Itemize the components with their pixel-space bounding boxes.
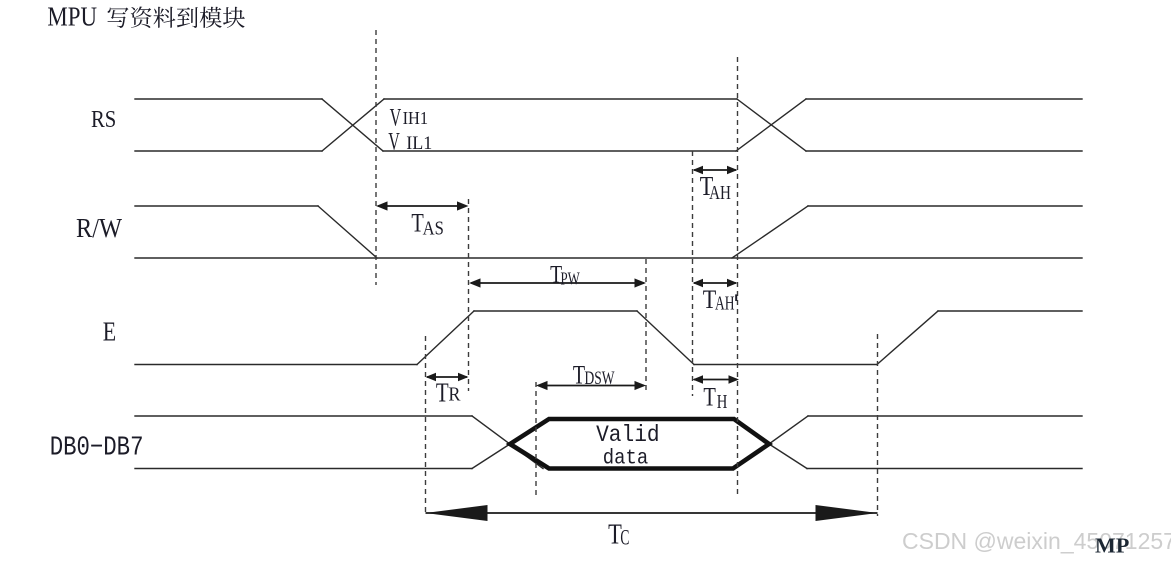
svg-text:DSW: DSW — [585, 368, 615, 389]
arrow TH — [694, 379, 737, 381]
RS low rail right — [806, 150, 1082, 152]
svg-text:data: data — [603, 447, 648, 470]
svg-text:CSDN @weixin_45071257: CSDN @weixin_45071257 — [902, 528, 1171, 554]
E low rail mid — [694, 364, 877, 366]
svg-text:H: H — [717, 391, 728, 413]
RW rising edge — [732, 206, 808, 258]
svg-text:AS: AS — [423, 218, 444, 240]
DB crossover falling thin — [472, 416, 543, 469]
E low rail left — [135, 364, 417, 366]
DB high rail left — [135, 415, 472, 417]
arrow TR — [427, 376, 467, 378]
DB right thin rising — [769, 416, 808, 444]
svg-text:IH1: IH1 — [403, 108, 429, 128]
svg-text:T: T — [436, 377, 449, 408]
svg-text:R/W: R/W — [76, 213, 122, 243]
svg-text:PW: PW — [561, 268, 581, 288]
svg-text:RS: RS — [91, 106, 116, 133]
DB low rail left — [135, 468, 472, 470]
svg-text:AH: AH — [709, 182, 731, 204]
RW high rail left — [135, 205, 318, 207]
svg-text:T: T — [703, 383, 716, 412]
dashed guide D4 — [535, 382, 537, 496]
DB high rail right — [808, 415, 1082, 417]
RS high rail left — [135, 98, 322, 100]
arrow TAH2 — [694, 282, 736, 284]
E rising edge 2 — [877, 311, 938, 365]
svg-text:MPU: MPU — [47, 0, 97, 31]
arrow TC — [426, 512, 878, 514]
RW falling edge — [318, 206, 377, 258]
RS right crossover rising — [736, 99, 806, 151]
DB low rail right — [807, 468, 1082, 470]
DB right thin falling — [769, 444, 807, 469]
dashed guide D3 — [425, 336, 427, 515]
RS right crossover falling — [737, 99, 806, 151]
dashed guide D5 — [645, 259, 647, 390]
svg-text:T: T — [573, 360, 585, 390]
RS high rail right — [806, 98, 1082, 100]
svg-text:MP: MP — [1095, 534, 1129, 558]
valid data hexagon — [510, 419, 769, 469]
E high rail — [474, 310, 637, 312]
svg-text:V: V — [388, 127, 400, 156]
DB crossover rising thin — [472, 444, 510, 469]
title CJK 写资料到模块 — [108, 6, 245, 27]
svg-text:R: R — [448, 384, 461, 406]
arrow TDSW — [538, 385, 644, 387]
dashed guide D1 — [375, 30, 377, 285]
arrow TAH — [694, 169, 736, 171]
svg-text:IL1: IL1 — [406, 133, 432, 154]
RS crossover rising — [322, 99, 384, 151]
dashed guide D6 — [692, 151, 694, 396]
svg-text:AH: AH — [715, 293, 735, 314]
dashed guide D2 — [468, 199, 470, 391]
E rising edge 1 — [417, 311, 474, 365]
label TAH2 tick — [735, 294, 737, 301]
RS low rail mid — [383, 150, 736, 152]
arrow TPW — [471, 282, 644, 284]
svg-text:DB0−DB7: DB0−DB7 — [50, 434, 144, 464]
E falling edge — [637, 311, 694, 365]
dashed guide D8 — [877, 334, 879, 516]
svg-text:Valid: Valid — [596, 422, 660, 448]
RW low rail — [135, 257, 1082, 259]
RS low rail left — [135, 150, 322, 152]
RS high rail mid — [384, 98, 737, 100]
E high rail right — [938, 310, 1082, 312]
RW high rail right — [808, 205, 1082, 207]
RS crossover falling — [322, 99, 383, 151]
arrow TAS — [378, 205, 466, 207]
svg-text:E: E — [103, 316, 116, 346]
svg-text:C: C — [620, 524, 629, 549]
dashed guide D7 — [737, 57, 739, 497]
